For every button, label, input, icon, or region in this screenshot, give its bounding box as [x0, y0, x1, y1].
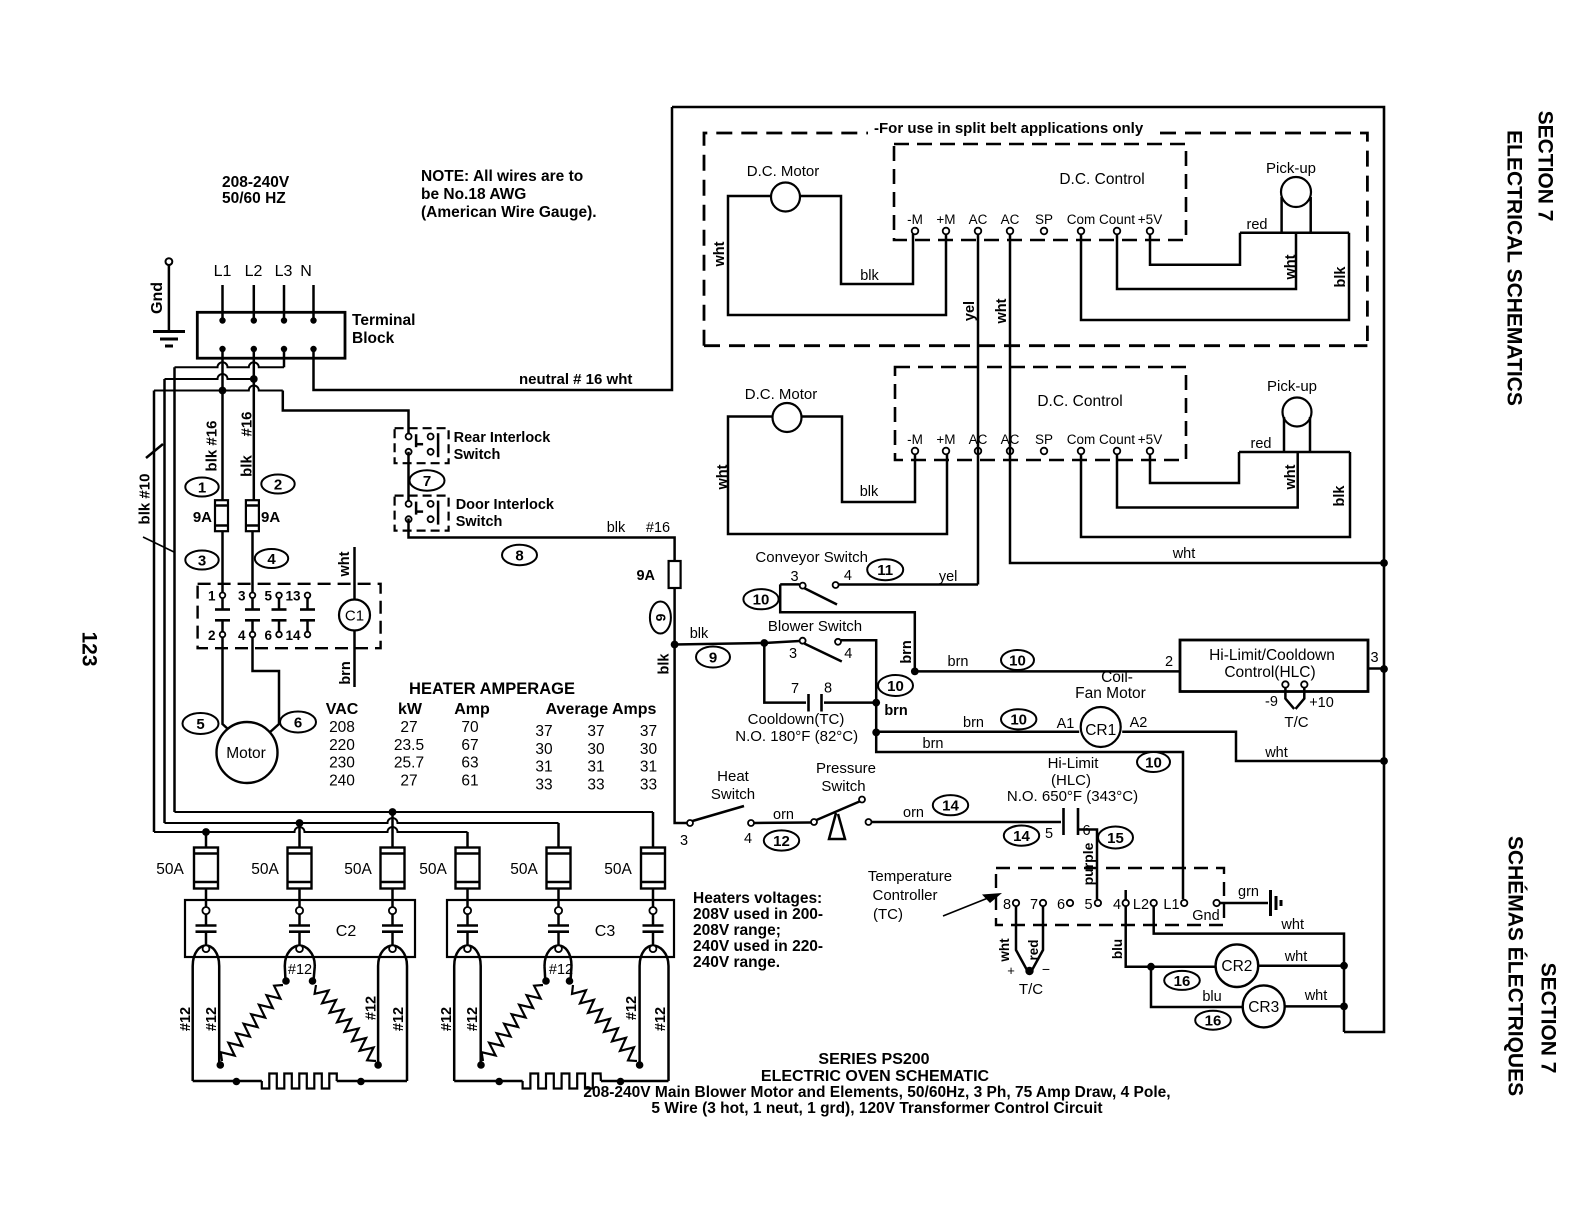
TC terminal 7: [1040, 900, 1046, 906]
svg-text:14: 14: [285, 628, 301, 643]
wire TC 8 to thermocouple: [1016, 906, 1028, 971]
svg-text:T/C: T/C: [1019, 981, 1043, 998]
svg-text:5: 5: [196, 716, 204, 733]
wire L1 drop: [221, 285, 224, 320]
svg-text:Rear Interlock: Rear Interlock: [454, 430, 552, 446]
wire red lower: [1150, 452, 1239, 483]
terminal Count upper: [1114, 228, 1121, 235]
svg-text:1: 1: [208, 589, 216, 604]
svg-text:yel: yel: [939, 569, 958, 585]
svg-text:ELECTRIC OVEN SCHEMATIC: ELECTRIC OVEN SCHEMATIC: [761, 1068, 990, 1085]
svg-text:33: 33: [587, 776, 604, 793]
svg-text:SP: SP: [1035, 212, 1053, 227]
wire N drop: [312, 285, 315, 320]
contactor pole 13-14: [305, 593, 311, 599]
svg-text:VAC: VAC: [326, 701, 359, 718]
svg-text:-9: -9: [1265, 694, 1278, 710]
D.C. control upper: [894, 144, 1186, 240]
svg-text:-M: -M: [907, 432, 923, 447]
terminal block TB1: [197, 312, 345, 358]
wire yel vertical: [977, 234, 980, 585]
circled 12: [764, 830, 799, 850]
circled 15: [1098, 827, 1133, 849]
svg-text:208-240V: 208-240V: [222, 174, 290, 191]
svg-text:6: 6: [294, 714, 302, 731]
svg-text:Conveyor Switch: Conveyor Switch: [755, 549, 868, 566]
wire blu to CR3: [1151, 967, 1242, 1007]
svg-text:L1: L1: [214, 263, 232, 280]
circled 16 a: [1164, 971, 1200, 990]
wire L1 tap to interlocks and left bundle: [154, 386, 283, 391]
wire L2 drop: [253, 285, 256, 320]
svg-text:12: 12: [773, 833, 790, 850]
svg-text:Switch: Switch: [711, 786, 755, 803]
svg-text:27: 27: [400, 719, 417, 736]
svg-text:(TC): (TC): [873, 906, 903, 923]
fuse 50A #4: [456, 848, 480, 889]
svg-text:#12: #12: [178, 1007, 194, 1031]
contactor coil C1: [353, 547, 356, 600]
terminal AC upper: [975, 228, 982, 235]
terminal Com lower: [1078, 448, 1085, 455]
svg-text:wht: wht: [1283, 254, 1299, 280]
svg-text:10: 10: [753, 592, 770, 609]
svg-text:blu: blu: [1110, 939, 1125, 959]
svg-text:10: 10: [1009, 652, 1026, 669]
wire L3 drop: [283, 285, 286, 320]
svg-text:D.C. Control: D.C. Control: [1059, 171, 1144, 188]
svg-text:9A: 9A: [193, 509, 212, 526]
svg-text:Hi-Limit/Cooldown: Hi-Limit/Cooldown: [1209, 647, 1335, 664]
circled 3: [185, 551, 218, 570]
TC terminal 4: [1123, 900, 1129, 906]
svg-text:240V range.: 240V range.: [693, 954, 780, 971]
svg-text:L2: L2: [1133, 897, 1149, 913]
wire wht vertical to bus: [1010, 234, 1384, 563]
Hi-Limit/Cooldown Control box HLC: [1180, 640, 1368, 692]
wire L3 to left bundle: [283, 349, 286, 367]
contactor C2 box: [185, 900, 415, 957]
svg-text:Gnd: Gnd: [149, 282, 166, 314]
heater element E3 (C3 left): [543, 966, 546, 981]
svg-text:5: 5: [1084, 897, 1092, 913]
leader arrow: [943, 898, 988, 916]
svg-text:+M: +M: [936, 432, 955, 447]
svg-text:−: −: [1042, 961, 1050, 977]
svg-text:Switch: Switch: [456, 514, 503, 530]
svg-text:L1: L1: [1163, 897, 1179, 913]
wire wht pickup lower: [1117, 452, 1298, 508]
circled 4: [255, 549, 288, 568]
svg-text:AC: AC: [969, 212, 988, 227]
svg-text:brn: brn: [948, 654, 969, 670]
svg-text:70: 70: [461, 719, 479, 736]
svg-text:L3: L3: [275, 263, 293, 280]
svg-text:Temperature: Temperature: [868, 868, 952, 885]
wire contactor 4 to motor: [253, 637, 280, 737]
wire grn to ground: [1220, 902, 1268, 905]
heater teardrop 3: [378, 946, 407, 967]
circled 7: [410, 470, 445, 490]
contactor C3 box: [447, 900, 674, 957]
wire orn heat to pressure: [754, 821, 811, 824]
heater element E1 (C2 left): [284, 966, 287, 981]
wire 9A fuse down: [675, 588, 687, 823]
svg-text:red: red: [1247, 217, 1268, 233]
svg-text:4: 4: [267, 551, 276, 568]
svg-text:13: 13: [285, 589, 301, 604]
relay coil CR3: [1243, 985, 1285, 1027]
svg-text:#12: #12: [465, 1007, 481, 1031]
svg-text:#12: #12: [439, 1007, 455, 1031]
svg-text:50A: 50A: [419, 861, 447, 878]
svg-text:blk: blk: [1332, 485, 1348, 507]
ground Gnd: [166, 258, 173, 265]
svg-text:5: 5: [264, 589, 272, 604]
svg-text:25.7: 25.7: [394, 755, 424, 772]
svg-text:brn: brn: [338, 661, 354, 684]
svg-text:N: N: [300, 263, 312, 280]
terminal AC upper: [1007, 228, 1014, 235]
C2 drop wires: [191, 966, 194, 1081]
wire L2 wht loop: [1154, 906, 1344, 1032]
wire fuse 3 to contactor: [391, 889, 394, 908]
terminal AC lower: [975, 448, 982, 455]
svg-text:30: 30: [535, 741, 553, 758]
door interlock switch: [395, 496, 449, 531]
svg-text:50A: 50A: [344, 861, 372, 878]
C3 bottom element: [454, 1080, 522, 1083]
svg-text:61: 61: [461, 772, 478, 789]
svg-text:-M: -M: [907, 212, 923, 227]
fuse F1 9A: [215, 500, 228, 531]
svg-text:+5V: +5V: [1138, 212, 1162, 227]
wire bus to fuse 6: [652, 812, 655, 848]
wire L2 below block: [253, 349, 256, 500]
terminal -M lower: [912, 448, 919, 455]
svg-text:blk #10: blk #10: [136, 474, 153, 525]
svg-text:Hi-Limit: Hi-Limit: [1048, 755, 1100, 772]
wire conveyor 3 to brn junction: [780, 584, 915, 671]
D.C. control lower: [895, 367, 1186, 460]
circled 14 a: [933, 795, 968, 815]
svg-text:4: 4: [1113, 897, 1121, 913]
svg-text:wht: wht: [712, 241, 728, 267]
C-contact column 4: [464, 907, 471, 914]
heater teardrop 1: [193, 946, 220, 967]
svg-text:N.O. 650°F (343°C): N.O. 650°F (343°C): [1007, 788, 1138, 805]
circled 14 b: [1004, 826, 1039, 846]
svg-text:Gnd: Gnd: [1192, 908, 1219, 924]
TC terminal Gnd: [1213, 900, 1219, 906]
svg-text:3: 3: [790, 569, 798, 585]
wire neutral #16 wht: [314, 107, 673, 390]
svg-text:1: 1: [198, 479, 206, 496]
svg-text:AC: AC: [1001, 212, 1020, 227]
svg-text:6: 6: [1057, 897, 1065, 913]
svg-text:3: 3: [680, 833, 688, 849]
TC terminal 6: [1067, 900, 1073, 906]
svg-text:D.C. Motor: D.C. Motor: [745, 386, 818, 403]
contactor pole 3-4: [250, 593, 256, 599]
wire main boundary wht: [672, 107, 1384, 1032]
svg-text:T/C: T/C: [1284, 714, 1308, 731]
wire bus to fuse 1: [205, 832, 208, 848]
svg-text:Com: Com: [1067, 212, 1096, 227]
C-contact column 3: [389, 907, 396, 914]
svg-text:blk: blk: [607, 520, 626, 536]
wire yel conveyor to AC: [839, 583, 978, 586]
TC terminal L2: [1151, 900, 1157, 906]
svg-text:C2: C2: [336, 923, 357, 940]
contactor C1 box: [198, 584, 381, 648]
svg-text:208: 208: [329, 719, 355, 736]
svg-text:yel: yel: [962, 301, 978, 321]
svg-text:-For use in split belt applica: -For use in split belt applications only: [874, 120, 1144, 137]
svg-text:grn: grn: [1238, 884, 1259, 900]
svg-text:33: 33: [640, 776, 657, 793]
svg-text:9A: 9A: [261, 509, 280, 526]
circled 11: [867, 559, 903, 580]
svg-text:50A: 50A: [604, 861, 632, 878]
svg-text:10: 10: [1145, 754, 1162, 771]
cooldown contact TC: [807, 694, 810, 712]
svg-text:123: 123: [77, 631, 100, 666]
C3 drop wires: [453, 966, 456, 1081]
wire L2 tap to left bundle: [165, 374, 254, 379]
circled 6: [280, 712, 316, 733]
svg-text:wht: wht: [1304, 988, 1328, 1004]
svg-text:CR1: CR1: [1085, 722, 1116, 739]
svg-text:(American Wire Gauge).: (American Wire Gauge).: [421, 204, 597, 221]
heater element E2 (C2 right): [314, 966, 315, 981]
svg-text:2: 2: [208, 628, 216, 643]
wire L1 below block: [221, 349, 224, 500]
svg-text:16: 16: [1174, 973, 1191, 990]
terminal 4 stub: [1124, 890, 1127, 900]
circled 10 conveyor: [743, 589, 778, 609]
svg-text:L2: L2: [245, 263, 263, 280]
svg-text:Block: Block: [352, 330, 395, 347]
bus L1 bottom: [154, 827, 468, 832]
svg-text:208V used in 200-: 208V used in 200-: [693, 906, 823, 923]
circled 5: [183, 713, 219, 734]
svg-text:208V range;: 208V range;: [693, 922, 781, 939]
TC terminal 5: [1095, 900, 1101, 906]
svg-text:wht: wht: [997, 938, 1012, 963]
svg-text:#12: #12: [624, 996, 640, 1020]
svg-text:SECTION 7: SECTION 7: [1533, 111, 1556, 222]
svg-text:31: 31: [640, 759, 657, 776]
wire rear to door interlock: [407, 452, 410, 503]
svg-text:6: 6: [264, 628, 272, 643]
svg-text:31: 31: [535, 759, 552, 776]
wire HLC 3 to bus: [1368, 667, 1384, 670]
ground symbol grn: [1269, 890, 1272, 916]
relay coil CR2: [1216, 944, 1259, 987]
rear interlock switch: [395, 428, 449, 463]
svg-text:HEATER AMPERAGE: HEATER AMPERAGE: [409, 680, 575, 698]
svg-text:#16: #16: [238, 411, 255, 436]
svg-text:8: 8: [824, 681, 832, 697]
svg-text:Motor: Motor: [226, 745, 266, 762]
bus L2 mid: [165, 818, 559, 823]
svg-text:#12: #12: [653, 1007, 669, 1031]
svg-text:C3: C3: [595, 923, 616, 940]
terminal +5V lower: [1147, 448, 1154, 455]
svg-text:+M: +M: [936, 212, 955, 227]
svg-text:SP: SP: [1035, 432, 1053, 447]
svg-text:brn: brn: [923, 736, 944, 752]
svg-text:wht: wht: [1172, 546, 1196, 562]
svg-text:Door Interlock: Door Interlock: [456, 497, 555, 513]
terminal +M lower: [943, 448, 950, 455]
fuse 50A #2: [288, 848, 312, 889]
wire bus to fuse 4: [466, 832, 469, 848]
wire fuse 5 to contactor: [557, 889, 560, 908]
wire brn to HLC 2: [915, 670, 1180, 673]
heater teardrop 5: [545, 946, 572, 967]
circled 8: [502, 545, 537, 565]
terminal Com upper: [1078, 228, 1085, 235]
svg-text:50/60 HZ: 50/60 HZ: [222, 190, 286, 207]
svg-text:4: 4: [844, 646, 852, 662]
svg-text:CR3: CR3: [1248, 999, 1279, 1016]
svg-text:Pick-up: Pick-up: [1266, 160, 1316, 177]
svg-text:Switch: Switch: [454, 447, 501, 463]
wire red upper: [1150, 233, 1240, 265]
svg-text:#12: #12: [391, 1007, 407, 1031]
svg-text:220: 220: [329, 737, 355, 754]
terminal +5V upper: [1147, 228, 1154, 235]
svg-text:37: 37: [640, 723, 657, 740]
svg-text:3: 3: [1370, 650, 1378, 666]
svg-text:230: 230: [329, 755, 355, 772]
svg-text:brn: brn: [899, 640, 915, 663]
circled 2: [261, 475, 294, 494]
svg-text:Controller: Controller: [872, 887, 937, 904]
svg-text:5: 5: [1045, 826, 1053, 842]
svg-text:purple: purple: [1080, 842, 1096, 885]
svg-text:NOTE: All wires are to: NOTE: All wires are to: [421, 168, 583, 185]
svg-text:N.O. 180°F (82°C): N.O. 180°F (82°C): [735, 728, 858, 745]
wire blower 4 down: [841, 640, 1183, 899]
svg-text:9A: 9A: [636, 568, 655, 584]
wire fuse2 to contactor 3: [251, 531, 254, 592]
wire CR2 to wht: [1258, 964, 1344, 967]
svg-text:#16: #16: [646, 520, 670, 536]
svg-text:wht: wht: [1264, 745, 1288, 761]
svg-text:blk: blk: [860, 268, 879, 284]
svg-text:ELECTRICAL SCHEMATICS: ELECTRICAL SCHEMATICS: [1502, 130, 1525, 406]
pick-up lower: [1283, 398, 1312, 427]
C-contact column 6: [649, 907, 656, 914]
heater teardrop 2: [285, 946, 315, 967]
wire orn pressure to hi-limit: [872, 821, 1062, 824]
TC terminal L1: [1181, 900, 1187, 906]
circled 10 HLC wire: [1001, 650, 1034, 670]
bus L3 top: [175, 811, 654, 813]
svg-text:#12: #12: [288, 962, 312, 978]
svg-text:Blower Switch: Blower Switch: [768, 618, 862, 635]
wire brn to CR1: [872, 729, 880, 737]
svg-text:brn: brn: [963, 715, 984, 731]
heater teardrop 6: [640, 946, 669, 967]
terminal SP upper: [1041, 228, 1048, 235]
svg-text:(HLC): (HLC): [1051, 772, 1091, 789]
svg-text:30: 30: [640, 741, 658, 758]
heater element E4 (C3 right): [571, 966, 572, 981]
C-contact column 5: [555, 907, 562, 914]
svg-text:23.5: 23.5: [394, 737, 424, 754]
svg-text:4: 4: [744, 831, 752, 847]
dashed split-belt box: [704, 133, 868, 346]
svg-text:5 Wire (3 hot, 1 neut, 1 grd),: 5 Wire (3 hot, 1 neut, 1 grd), 120V Tran…: [651, 1100, 1102, 1117]
circled 10 lower: [1137, 752, 1170, 772]
svg-text:Count: Count: [1099, 212, 1135, 227]
svg-text:D.C. Control: D.C. Control: [1037, 393, 1122, 410]
temperature controller TC box: [996, 868, 1224, 925]
heater teardrop 4: [454, 946, 481, 967]
svg-text:+10: +10: [1309, 695, 1334, 711]
thermocouple T/C HLC: [1282, 681, 1288, 687]
svg-text:10: 10: [1010, 712, 1027, 729]
wire wht pickup upper: [1117, 233, 1296, 289]
svg-text:A1: A1: [1057, 716, 1075, 732]
svg-text:Average Amps: Average Amps: [546, 701, 657, 718]
wire fuse 4 to contactor: [466, 889, 469, 908]
wire purple: [1078, 830, 1097, 900]
svg-text:11: 11: [877, 562, 893, 579]
wire bus to fuse 3: [391, 812, 394, 848]
contactor pole 1-2: [220, 593, 226, 599]
svg-text:+: +: [1007, 963, 1015, 978]
svg-text:orn: orn: [773, 807, 794, 823]
svg-text:8: 8: [515, 547, 523, 564]
wire fuse 1 to contactor: [205, 889, 208, 908]
svg-text:33: 33: [535, 776, 552, 793]
D.C. motor lower: [728, 417, 947, 535]
svg-text:blu: blu: [1202, 989, 1221, 1005]
svg-text:be No.18 AWG: be No.18 AWG: [421, 186, 526, 203]
svg-text:7: 7: [791, 681, 799, 697]
svg-text:16: 16: [1205, 1013, 1222, 1030]
svg-text:blk #16: blk #16: [203, 421, 220, 472]
svg-text:Cooldown(TC): Cooldown(TC): [748, 711, 845, 728]
contactor pole 5-6: [276, 593, 282, 599]
svg-text:15: 15: [1107, 830, 1124, 847]
svg-text:wht: wht: [337, 551, 353, 577]
svg-text:blk: blk: [238, 455, 255, 477]
terminal Count lower: [1114, 448, 1121, 455]
svg-text:#12: #12: [549, 962, 573, 978]
wire blk pickup lower: [1081, 452, 1350, 537]
pick-up upper: [1281, 177, 1311, 207]
svg-text:37: 37: [587, 723, 604, 740]
wire blower 3 to cooldown: [764, 643, 806, 703]
svg-text:Heat: Heat: [717, 768, 750, 785]
svg-text:14: 14: [1013, 828, 1030, 845]
fuse F4 9A: [669, 561, 681, 588]
svg-text:240V used in 220-: 240V used in 220-: [693, 938, 823, 955]
fuse 50A #3: [381, 848, 405, 889]
svg-text:wht: wht: [994, 298, 1010, 324]
svg-text:14: 14: [942, 798, 959, 815]
svg-text:7: 7: [1030, 897, 1038, 913]
svg-text:red: red: [1026, 939, 1041, 960]
svg-text:SCHÉMAS ÉLECTRIQUES: SCHÉMAS ÉLECTRIQUES: [1503, 836, 1526, 1096]
terminal SP lower: [1041, 448, 1048, 455]
